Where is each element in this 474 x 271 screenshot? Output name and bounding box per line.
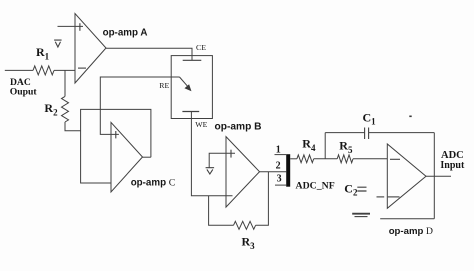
svg-text:Ouput: Ouput xyxy=(10,86,38,97)
op-amp D xyxy=(387,144,426,208)
ground symbol near op-amp A xyxy=(54,40,62,47)
wire op-amp C output xyxy=(143,156,151,158)
connector pin 3 stub xyxy=(275,184,286,186)
wire op-amp A noninverting input xyxy=(58,25,84,27)
resistor R2 xyxy=(62,96,69,122)
svg-text:1: 1 xyxy=(276,145,281,156)
op-amp C plus input mark xyxy=(115,131,117,138)
svg-text:2: 2 xyxy=(276,160,281,171)
RE arrow xyxy=(180,77,188,86)
connector bar ADC_NF xyxy=(286,154,290,187)
wire DAC output lead xyxy=(5,69,33,71)
wire output loop right and bottom xyxy=(380,133,434,219)
svg-text:op-amp B: op-amp B xyxy=(215,122,262,133)
ground symbol near op-amp B xyxy=(206,168,215,174)
wire WE to op-amp B inverting input xyxy=(191,112,232,196)
resistor R3 xyxy=(234,221,256,229)
stray dot xyxy=(409,116,411,118)
svg-text:WE: WE xyxy=(195,120,207,129)
connector pin 1 stub xyxy=(275,154,287,156)
svg-text:CE: CE xyxy=(196,43,206,52)
op-amp B xyxy=(226,137,260,208)
CE electrode bar xyxy=(183,59,202,61)
earth ground symbol xyxy=(352,213,370,215)
wire R4 to R5 xyxy=(314,158,338,160)
WE electrode bar xyxy=(182,111,199,113)
op-amp A plus input mark xyxy=(79,23,81,31)
svg-text:op-amp D: op-amp D xyxy=(389,226,433,237)
op-amp A minus input mark xyxy=(78,67,86,69)
wire op-amp A output to CE xyxy=(106,48,192,60)
wire R5 to op-amp D input xyxy=(353,158,387,160)
wire C1 right to loop xyxy=(369,132,435,134)
wire connector to R4 xyxy=(290,158,297,160)
capacitor C1 xyxy=(365,128,369,140)
svg-text:ADC_NF: ADC_NF xyxy=(296,180,335,191)
wire junction to R2 xyxy=(64,70,66,96)
wire op-amp B feedback left xyxy=(209,196,234,226)
wire op-amp B feedback right xyxy=(256,172,269,226)
capacitor C2 xyxy=(357,187,366,191)
op-amp C xyxy=(111,122,143,191)
op-amp D lower input stub xyxy=(377,196,385,198)
svg-text:op-amp A: op-amp A xyxy=(103,27,148,38)
wire op-amp C feedback loop xyxy=(81,109,151,183)
svg-text:3: 3 xyxy=(277,174,282,185)
wire R2 bottom to follower node xyxy=(65,122,81,131)
svg-text:Input: Input xyxy=(440,160,465,171)
wire junction up to C1 xyxy=(324,133,326,159)
op-amp D lower input mark xyxy=(388,196,400,198)
wire R1 to op-amp A inverting input xyxy=(54,69,75,71)
op-amp B plus input mark xyxy=(230,150,232,158)
op-amp A xyxy=(75,14,106,84)
wire RE to op-amp C noninverting input xyxy=(100,77,179,134)
wire op-amp B output xyxy=(260,171,287,173)
op-amp D upper input mark xyxy=(390,158,400,160)
svg-text:RE: RE xyxy=(159,81,169,90)
wire op-amp B noninverting input to ground xyxy=(209,153,235,167)
svg-text:op-amp C: op-amp C xyxy=(131,178,176,189)
wire C1 left xyxy=(325,132,364,134)
electrochemical cell box xyxy=(171,56,212,119)
wire op-amp D output to ADC input xyxy=(426,175,451,177)
resistor R1 xyxy=(33,66,54,75)
resistor R5 xyxy=(337,155,353,163)
resistor R4 xyxy=(297,155,314,163)
